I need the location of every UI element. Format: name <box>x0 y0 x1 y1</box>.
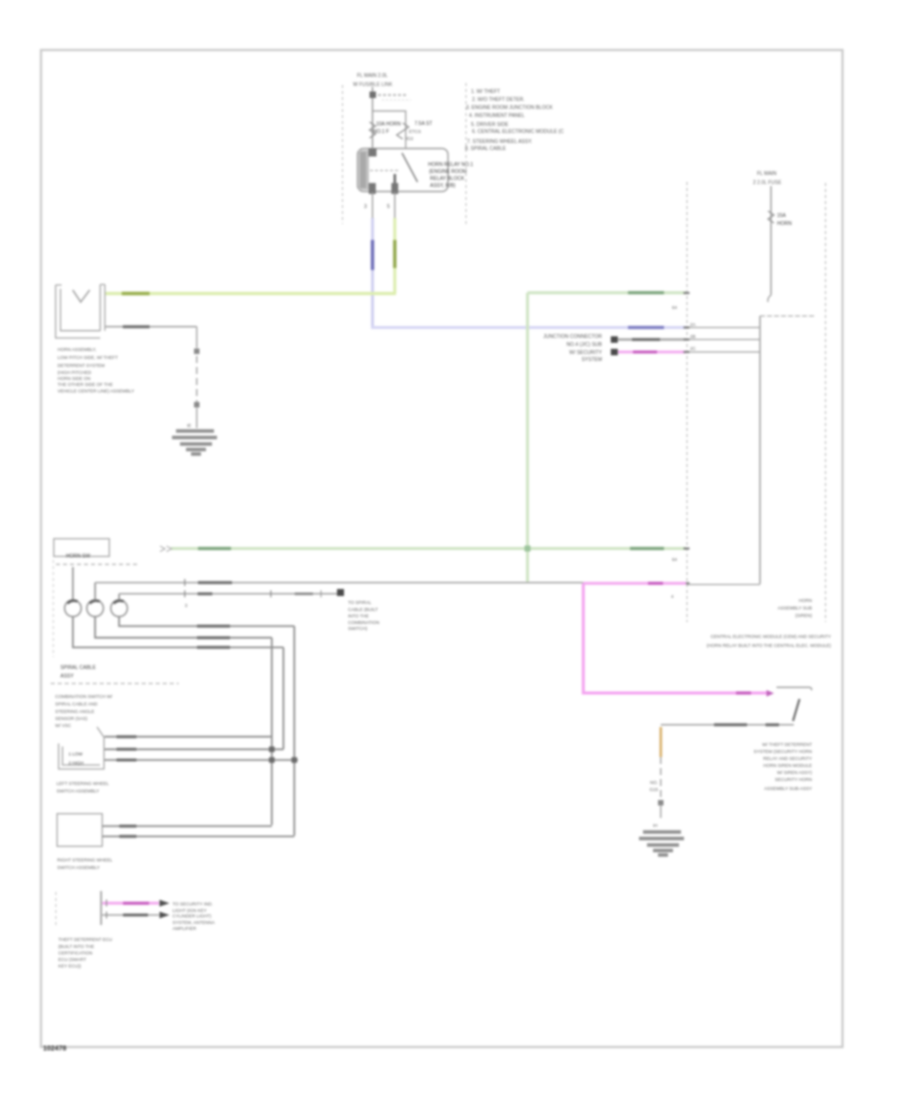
relay pin 5 stub <box>394 192 396 218</box>
svg-text:7. STEERING WHEEL ASSY.: 7. STEERING WHEEL ASSY. <box>467 139 532 145</box>
svg-text:HORN RELAY NO.1: HORN RELAY NO.1 <box>428 162 473 168</box>
wire c1 bottom to H5 <box>73 617 284 648</box>
wire magenta tail gray <box>687 584 760 586</box>
svg-text:SWITCH ASSEMBLY: SWITCH ASSEMBLY <box>57 865 100 870</box>
spiral dashed underline <box>51 683 179 685</box>
wire W5 <box>102 835 294 837</box>
svg-text:15A: 15A <box>777 213 787 219</box>
H2 label 2 <box>295 592 313 595</box>
svg-text:LIGHT (IGN KEY: LIGHT (IGN KEY <box>173 908 207 913</box>
arrow A2 <box>160 912 170 919</box>
svg-text:CYLINDER LIGHT): CYLINDER LIGHT) <box>173 914 212 919</box>
svg-text:G15: G15 <box>649 787 658 792</box>
splice dot S2 <box>194 402 200 408</box>
junction dot J2 <box>611 349 618 356</box>
horn diaphragm V <box>73 290 90 302</box>
svg-text:10A HORN: 10A HORN <box>376 122 401 128</box>
fuse F1 HORN <box>370 122 376 138</box>
relay switch arm <box>402 153 418 182</box>
svg-text:5: 5 <box>387 204 390 210</box>
svg-text:SPIRAL CABLE AND: SPIRAL CABLE AND <box>55 702 98 707</box>
wire ground dashed <box>196 356 198 402</box>
G_SIREN <box>639 687 812 855</box>
relay pin stub inside <box>393 174 396 193</box>
tick magenta stub <box>106 900 108 907</box>
wire magenta loop <box>583 583 767 693</box>
G_MIDWIRES <box>105 218 760 599</box>
siren switch arm <box>793 699 800 721</box>
connector ticks on C1 <box>684 293 690 583</box>
wire gray J1 tail <box>687 339 760 341</box>
svg-text:(HORN RELAY BUILT INTO THE CEN: (HORN RELAY BUILT INTO THE CENTRAL ELEC.… <box>707 643 832 648</box>
svg-text:HORN SIREN MODULE: HORN SIREN MODULE <box>763 763 812 768</box>
wire c3 top stem to H2 <box>118 594 120 600</box>
ground G2 symbol <box>639 832 684 855</box>
svg-text:5. DRIVER SIDE: 5. DRIVER SIDE <box>471 122 509 128</box>
junction blobs <box>269 747 275 753</box>
svg-text:ASSEMBLY SUB: ASSEMBLY SUB <box>778 606 812 611</box>
splice dot S1 <box>194 349 200 355</box>
svg-text:W/ SECURITY: W/ SECURITY <box>569 350 602 356</box>
svg-text:SENSOR (SAS): SENSOR (SAS) <box>55 716 88 721</box>
svg-text:1. W/ THEFT: 1. W/ THEFT <box>471 89 500 95</box>
svg-text:NO.1 F: NO.1 F <box>373 129 389 135</box>
svg-text:NO.4 (J/C) SUB: NO.4 (J/C) SUB <box>566 342 602 348</box>
splice dot S3 <box>658 800 664 806</box>
wire label horn ground <box>123 325 150 328</box>
terminal T1 <box>370 92 377 99</box>
svg-text:RELAY AND SECURITY: RELAY AND SECURITY <box>763 756 812 761</box>
wire c2 top stem to H1 <box>94 583 96 600</box>
H2 label 1 <box>198 592 213 595</box>
svg-text:W/ VSC: W/ VSC <box>55 723 72 728</box>
wire label GN upper <box>628 291 664 294</box>
svg-text:W/ THEFT DETERRENT: W/ THEFT DETERRENT <box>762 742 812 747</box>
wire W2 <box>105 748 284 750</box>
svg-text:(HIGH PITCHED: (HIGH PITCHED <box>58 370 93 375</box>
relay coil bar <box>359 150 370 190</box>
wire fuse feed vertical <box>770 186 772 295</box>
relay contact dashes <box>370 170 398 172</box>
fuse F3 <box>768 211 774 223</box>
bus vertical V2 <box>271 638 273 825</box>
wire label GN long right <box>630 547 664 550</box>
arrow A1 <box>160 900 170 907</box>
wire gray from J1 <box>618 338 686 341</box>
contact marks <box>68 601 124 604</box>
contact circle c2 <box>87 600 104 617</box>
wire label magenta top <box>648 582 663 585</box>
wire pale green segment upper <box>528 291 687 294</box>
svg-text:HORN ASSEMBLY,: HORN ASSEMBLY, <box>58 347 97 352</box>
bus bar dashes <box>378 94 406 96</box>
connector arrow long green <box>160 546 172 552</box>
wire CEM left vertical <box>759 316 761 584</box>
svg-text:2C: 2C <box>690 346 697 351</box>
svg-text:64: 64 <box>672 305 678 310</box>
svg-text:SWITCH ASSEMBLY: SWITCH ASSEMBLY <box>57 789 100 794</box>
wire label BL horizontal <box>628 326 664 329</box>
svg-text:SWITCH): SWITCH) <box>348 626 368 631</box>
wire pale green vertical <box>526 293 529 582</box>
svg-text:2B: 2B <box>690 334 696 339</box>
wire magenta stub <box>102 902 159 905</box>
svg-text:HORN: HORN <box>777 221 792 227</box>
svg-text:CABLE (BUILT: CABLE (BUILT <box>348 607 378 612</box>
H2 tick 2 <box>270 590 272 597</box>
svg-text:KEY ECU)): KEY ECU)) <box>58 964 81 969</box>
G_RIGHTTOP <box>687 171 826 622</box>
fusebox boundary dashed left <box>342 85 344 224</box>
switch assembly dashed top <box>56 563 140 565</box>
wire magenta from J2 <box>618 351 686 354</box>
junction dot J1 <box>611 336 618 343</box>
horn switch box <box>54 539 110 557</box>
wire labels on bus lines <box>197 626 230 647</box>
H1 tick <box>184 579 186 586</box>
svg-text:(BUILT INTO THE: (BUILT INTO THE <box>58 944 94 949</box>
connector pair blobs <box>767 690 775 697</box>
right switch box <box>57 814 102 847</box>
wire magenta top segment <box>583 582 686 585</box>
H2 tick 3 <box>320 590 322 597</box>
svg-text:ASSY, R/B): ASSY, R/B) <box>430 183 456 189</box>
H2 end dot <box>337 589 344 596</box>
wire horn ground horizontal <box>105 326 197 328</box>
wire labels siren <box>714 723 747 726</box>
svg-text:TO SECURITY IND.: TO SECURITY IND. <box>173 902 213 907</box>
ground G1 symbol <box>172 431 217 454</box>
bus vertical V1 <box>293 626 295 836</box>
svg-text:TO SPIRAL: TO SPIRAL <box>348 600 372 605</box>
wire H1 gray to magenta corner <box>95 582 583 584</box>
svg-text:VEHICLE CENTER LINE) ASSEMBLY: VEHICLE CENTER LINE) ASSEMBLY <box>58 389 135 394</box>
svg-text:2. W/O THEFT DETER.: 2. W/O THEFT DETER. <box>472 97 525 103</box>
G_LEGEND <box>465 83 564 227</box>
svg-text:COMBINATION: COMBINATION <box>348 620 379 625</box>
svg-text:W/ SIREN ASSY): W/ SIREN ASSY) <box>777 770 813 775</box>
wire W4 <box>102 825 272 827</box>
svg-text:STEERING ANGLE: STEERING ANGLE <box>55 709 94 714</box>
wire label J1 <box>632 338 660 341</box>
horn component outline <box>56 285 105 339</box>
svg-text:IH: IH <box>653 823 658 828</box>
svg-text:IE: IE <box>187 423 191 428</box>
svg-text:LOW PITCH SIDE, W/ THEFT: LOW PITCH SIDE, W/ THEFT <box>58 355 119 360</box>
wire label J2 magenta <box>633 351 657 354</box>
svg-text:INTO THE: INTO THE <box>348 614 369 619</box>
svg-text:2 HIGH: 2 HIGH <box>69 761 84 766</box>
wire blue tail gray <box>687 327 760 329</box>
svg-text:SPIRAL CABLE: SPIRAL CABLE <box>60 665 96 671</box>
G_MAGENTA <box>583 583 831 696</box>
relay pin bottom blobs <box>369 183 376 194</box>
G_BOTTOM <box>56 891 215 969</box>
svg-text:RIGHT STEERING WHEEL: RIGHT STEERING WHEEL <box>57 858 113 863</box>
wire c2 bottom to H4 <box>95 617 272 638</box>
wire orange segment <box>659 727 662 757</box>
G_TOPCLUSTER <box>343 73 474 224</box>
relay pin 3 stub <box>372 192 374 218</box>
svg-text:SYSTEM: SYSTEM <box>581 357 602 363</box>
wire label GN vertical <box>393 240 396 268</box>
svg-text:NO.: NO. <box>650 780 658 785</box>
wire gray stub <box>102 914 159 916</box>
svg-text:ETCS: ETCS <box>409 129 421 134</box>
wire siren ground dashed <box>660 757 662 799</box>
wire labels W4 W5 <box>119 826 136 836</box>
wire siren bottom <box>661 724 794 726</box>
svg-text:HORN: HORN <box>799 598 812 603</box>
svg-text:(ENGINE ROOM: (ENGINE ROOM <box>429 169 467 175</box>
svg-text:SYSTEM (SECURITY HORN: SYSTEM (SECURITY HORN <box>754 749 812 754</box>
contact circle c3 <box>111 600 128 617</box>
svg-text:CERTIFICATION: CERTIFICATION <box>58 951 92 956</box>
relay pin top <box>369 149 377 157</box>
svg-text:(SIREN): (SIREN) <box>795 613 812 618</box>
svg-text:IG2: IG2 <box>406 136 414 141</box>
bus vertical V3 <box>282 647 284 749</box>
wire green vertical from relay pin 5 <box>393 218 396 294</box>
svg-text:4. INSTRUMENT PANEL: 4. INSTRUMENT PANEL <box>469 113 525 119</box>
svg-text:64: 64 <box>672 557 678 562</box>
svg-text:THEFT DETERRENT ECU: THEFT DETERRENT ECU <box>58 937 112 942</box>
H1 label <box>198 581 232 584</box>
wire gray J2 tail <box>687 351 760 353</box>
contact circle c1 <box>65 600 82 617</box>
svg-text:6. CENTRAL ELECTRONIC MODULE (: 6. CENTRAL ELECTRONIC MODULE (C <box>472 129 564 135</box>
wire ground stub <box>196 408 198 428</box>
svg-text:HORN SW: HORN SW <box>66 554 90 560</box>
connector end hook <box>768 295 771 302</box>
svg-text:102478: 102478 <box>43 1046 66 1053</box>
wire stub to ground G2 <box>660 805 662 818</box>
svg-text:AMPLIFIER: AMPLIFIER <box>173 926 198 931</box>
tick gray stub <box>106 912 108 919</box>
svg-text:ASSY: ASSY <box>60 674 74 680</box>
svg-text:RELAY BLOCK: RELAY BLOCK <box>430 176 465 182</box>
svg-text:DETERRENT SYSTEM: DETERRENT SYSTEM <box>58 363 105 368</box>
svg-text:JUNCTION CONNECTOR: JUNCTION CONNECTOR <box>543 334 602 340</box>
wire siren contact <box>777 687 812 690</box>
svg-text:ECU (SMART: ECU (SMART <box>58 957 86 962</box>
wire labels W1 W2 W3 <box>117 737 137 760</box>
wire label GN horn <box>122 292 150 295</box>
H2 tick 1 <box>184 590 186 597</box>
svg-text:THE OTHER SIDE OF THE: THE OTHER SIDE OF THE <box>58 382 113 387</box>
svg-text:SYSTEM, ANTENNA: SYSTEM, ANTENNA <box>173 920 215 925</box>
wire H2 to junction dot <box>119 593 337 595</box>
wire yellowgreen horizontal to horn <box>105 292 396 295</box>
wire ground drop <box>196 327 198 348</box>
wire label magenta bottom <box>736 691 751 694</box>
wire label GN long <box>198 547 231 550</box>
svg-text:COMBINATION SWITCH W/: COMBINATION SWITCH W/ <box>55 694 113 699</box>
relay box outline <box>358 149 449 192</box>
wire W1 <box>105 736 272 738</box>
svg-text:CENTRAL ELECTRONIC MODULE (CEM: CENTRAL ELECTRONIC MODULE (CEM) AND SECU… <box>711 634 831 639</box>
wire top edge to CEM <box>760 315 815 317</box>
G_HORN <box>56 285 217 455</box>
svg-text:3. ENGINE ROOM JUNCTION BLOCK: 3. ENGINE ROOM JUNCTION BLOCK <box>466 105 553 111</box>
wire blue vertical from relay pin 3 <box>371 218 374 328</box>
svg-text:2A: 2A <box>690 322 696 327</box>
junction green cross <box>525 546 531 552</box>
svg-text:ASSEMBLY SUB-ASSY: ASSEMBLY SUB-ASSY <box>764 786 812 791</box>
G_LOWERLEFT <box>51 539 584 870</box>
fuse F2 <box>397 123 409 139</box>
svg-text:HORN SIDE ON: HORN SIDE ON <box>58 376 91 381</box>
svg-text:FL MAIN: FL MAIN <box>757 171 777 177</box>
wire battery feed vertical <box>372 87 374 149</box>
connector dashed boundary <box>55 892 57 925</box>
wire W3 <box>105 759 299 761</box>
svg-text:3: 3 <box>364 204 367 210</box>
svg-text:8. SPIRAL CABLE: 8. SPIRAL CABLE <box>465 146 507 152</box>
svg-text:LEFT STEERING WHEEL: LEFT STEERING WHEEL <box>57 781 110 786</box>
svg-text:7.5A ST: 7.5A ST <box>415 121 433 127</box>
wire blue horizontal to CEM <box>371 326 686 329</box>
svg-text:2 2.0L FUSE: 2 2.0L FUSE <box>753 180 782 186</box>
svg-text:FL MAIN 2.0L: FL MAIN 2.0L <box>357 73 388 79</box>
wire c1 top stem <box>72 567 74 600</box>
legend boundary dashed line <box>465 83 467 227</box>
left switch connector outline <box>59 727 105 769</box>
svg-text:SECURITY HORN: SECURITY HORN <box>775 777 812 782</box>
wire label BL vertical <box>371 240 374 270</box>
connector dashed line C1 <box>686 182 688 622</box>
connector bar <box>100 891 102 925</box>
wire label gray stub <box>123 914 148 917</box>
wire branch to fuse F2 <box>373 111 406 149</box>
wire pale green long horizontal <box>171 547 686 550</box>
switch assembly dashed left <box>52 560 54 657</box>
wire c3 bottom to H3 <box>119 617 294 627</box>
connector dashed line C2 <box>825 183 827 622</box>
svg-text:1 LOW: 1 LOW <box>69 752 84 757</box>
wire label magenta stub <box>123 902 149 905</box>
